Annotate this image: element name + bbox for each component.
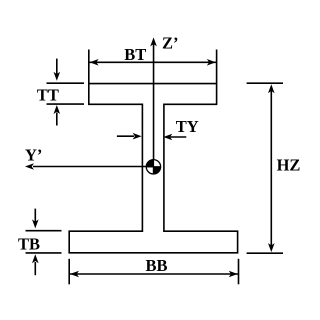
dimension BB left tick bbox=[68, 259, 70, 285]
dimension HZ top extension line bbox=[247, 82, 283, 84]
dimension TB down arrow line bbox=[34, 209, 36, 222]
svg-text:Z’: Z’ bbox=[162, 33, 179, 52]
dimension TT up arrow line bbox=[56, 113, 58, 126]
centroid filled quadrant bottom-right bbox=[153, 167, 160, 174]
dimension HZ up arrowhead bbox=[268, 84, 275, 93]
dimension TB up arrow line bbox=[34, 262, 36, 275]
dimension TT top extension line bbox=[47, 82, 85, 84]
dimension TT down arrow line bbox=[56, 59, 58, 75]
centroid crosshair horizontal bbox=[146, 166, 161, 168]
dimension TB bottom extension line bbox=[26, 252, 62, 254]
svg-text:BT: BT bbox=[124, 45, 146, 64]
dimension BB left arrowhead bbox=[70, 271, 79, 278]
dimension BT right tick bbox=[216, 50, 218, 84]
svg-text:TY: TY bbox=[176, 117, 199, 136]
dimension TY right arrowhead bbox=[133, 133, 142, 140]
dimension TB top extension line bbox=[26, 230, 62, 232]
dimension BT right arrowhead bbox=[207, 59, 216, 66]
svg-text:TB: TB bbox=[18, 235, 40, 254]
dimension BB right tick bbox=[238, 259, 240, 285]
svg-text:BB: BB bbox=[146, 256, 168, 275]
dimension HZ line bbox=[270, 91, 272, 246]
dimension BB line bbox=[69, 273, 238, 275]
dimension TB down arrowhead bbox=[32, 219, 39, 228]
dimension TT down arrowhead bbox=[54, 72, 61, 81]
dimension BB right arrowhead bbox=[229, 271, 238, 278]
svg-text:HZ: HZ bbox=[277, 155, 301, 174]
svg-text:TT: TT bbox=[37, 86, 59, 105]
dimension BT line bbox=[89, 61, 217, 63]
dimension BT left arrowhead bbox=[90, 59, 99, 66]
dimension TT up arrowhead bbox=[54, 105, 61, 114]
centroid filled quadrant top-left bbox=[146, 160, 153, 167]
dimension TB up arrowhead bbox=[32, 254, 39, 263]
axis Y' arrowhead bbox=[25, 163, 34, 170]
I-beam section outline bbox=[69, 84, 237, 253]
dimension TY right arrow line bbox=[117, 135, 134, 137]
svg-text:Y’: Y’ bbox=[25, 146, 42, 165]
axis Z' line bbox=[153, 44, 155, 175]
dimension TY left arrow line bbox=[170, 136, 186, 138]
dimension TY left arrowhead bbox=[163, 134, 172, 141]
axis Z' arrowhead bbox=[150, 37, 157, 46]
dimension TT bottom extension line bbox=[47, 103, 85, 105]
axis Y' line bbox=[33, 166, 160, 168]
dimension BT left tick bbox=[88, 50, 90, 84]
centroid symbol circle bbox=[146, 160, 160, 174]
centroid crosshair vertical bbox=[152, 159, 154, 174]
dimension HZ bottom extension line bbox=[247, 252, 283, 254]
dimension HZ down arrowhead bbox=[268, 243, 275, 252]
